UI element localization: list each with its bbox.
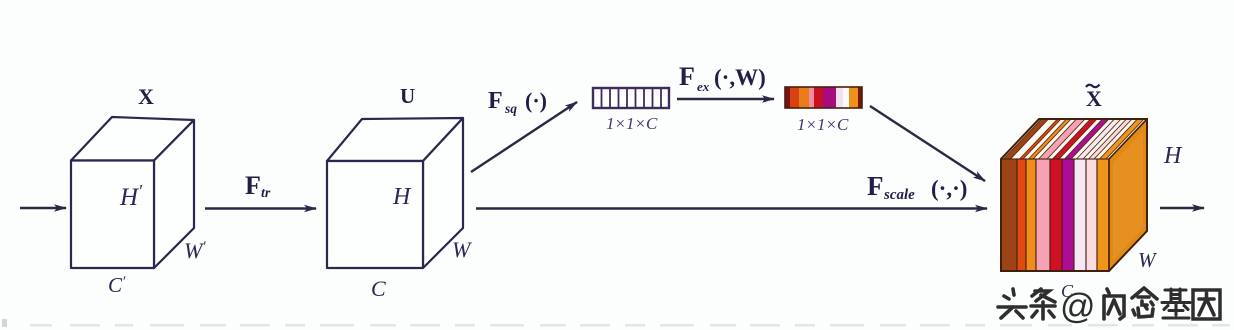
svg-text:1×1×C: 1×1×C [797,115,849,134]
char nian [1132,288,1157,317]
svg-text:sq: sq [504,101,517,116]
node X cube [71,117,194,268]
svg-text:W: W [452,237,472,262]
wire F_scale long arrow [476,207,987,209]
svg-text:(·,·): (·,·) [931,176,967,201]
svg-text:H: H [392,184,412,210]
svg-text:scale: scale [883,187,915,203]
wire arrow excitation to scale [870,106,985,181]
svg-text:F: F [245,171,261,200]
node squeeze vector 1x1xC [593,88,669,108]
svg-text:H: H [1163,143,1183,169]
svg-text:F: F [488,88,503,114]
char tiao [1031,289,1055,319]
svg-text:tr: tr [261,186,271,201]
cropped text remnants bottom [2,319,1230,327]
node excitation vector 1x1xC colored [785,87,862,108]
wire input arrow [20,207,66,209]
node U cube [327,118,463,268]
wire output arrow [1160,207,1204,209]
svg-text:U: U [400,84,415,108]
char tou [998,289,1026,318]
svg-text:X: X [1086,86,1102,111]
svg-text:W: W [1138,248,1158,272]
svg-text:C: C [371,276,386,301]
svg-text:X: X [138,84,154,109]
svg-text:F: F [679,62,695,91]
svg-text:F: F [867,171,884,201]
svg-text:@: @ [1060,287,1096,326]
char shan [1104,289,1124,319]
wire F_tr arrow [205,207,316,209]
svg-text:(·,W): (·,W) [714,65,766,90]
svg-text:1×1×C: 1×1×C [606,114,658,133]
svg-text:ex: ex [697,79,710,94]
node Xtilde colored cube [1001,119,1147,271]
char yin [1193,290,1220,319]
wire F_sq arrow [471,102,577,172]
char ji [1162,289,1190,318]
svg-text:(·): (·) [525,88,547,113]
watermark toutiao [998,289,1055,319]
wire F_ex arrow [677,98,774,100]
